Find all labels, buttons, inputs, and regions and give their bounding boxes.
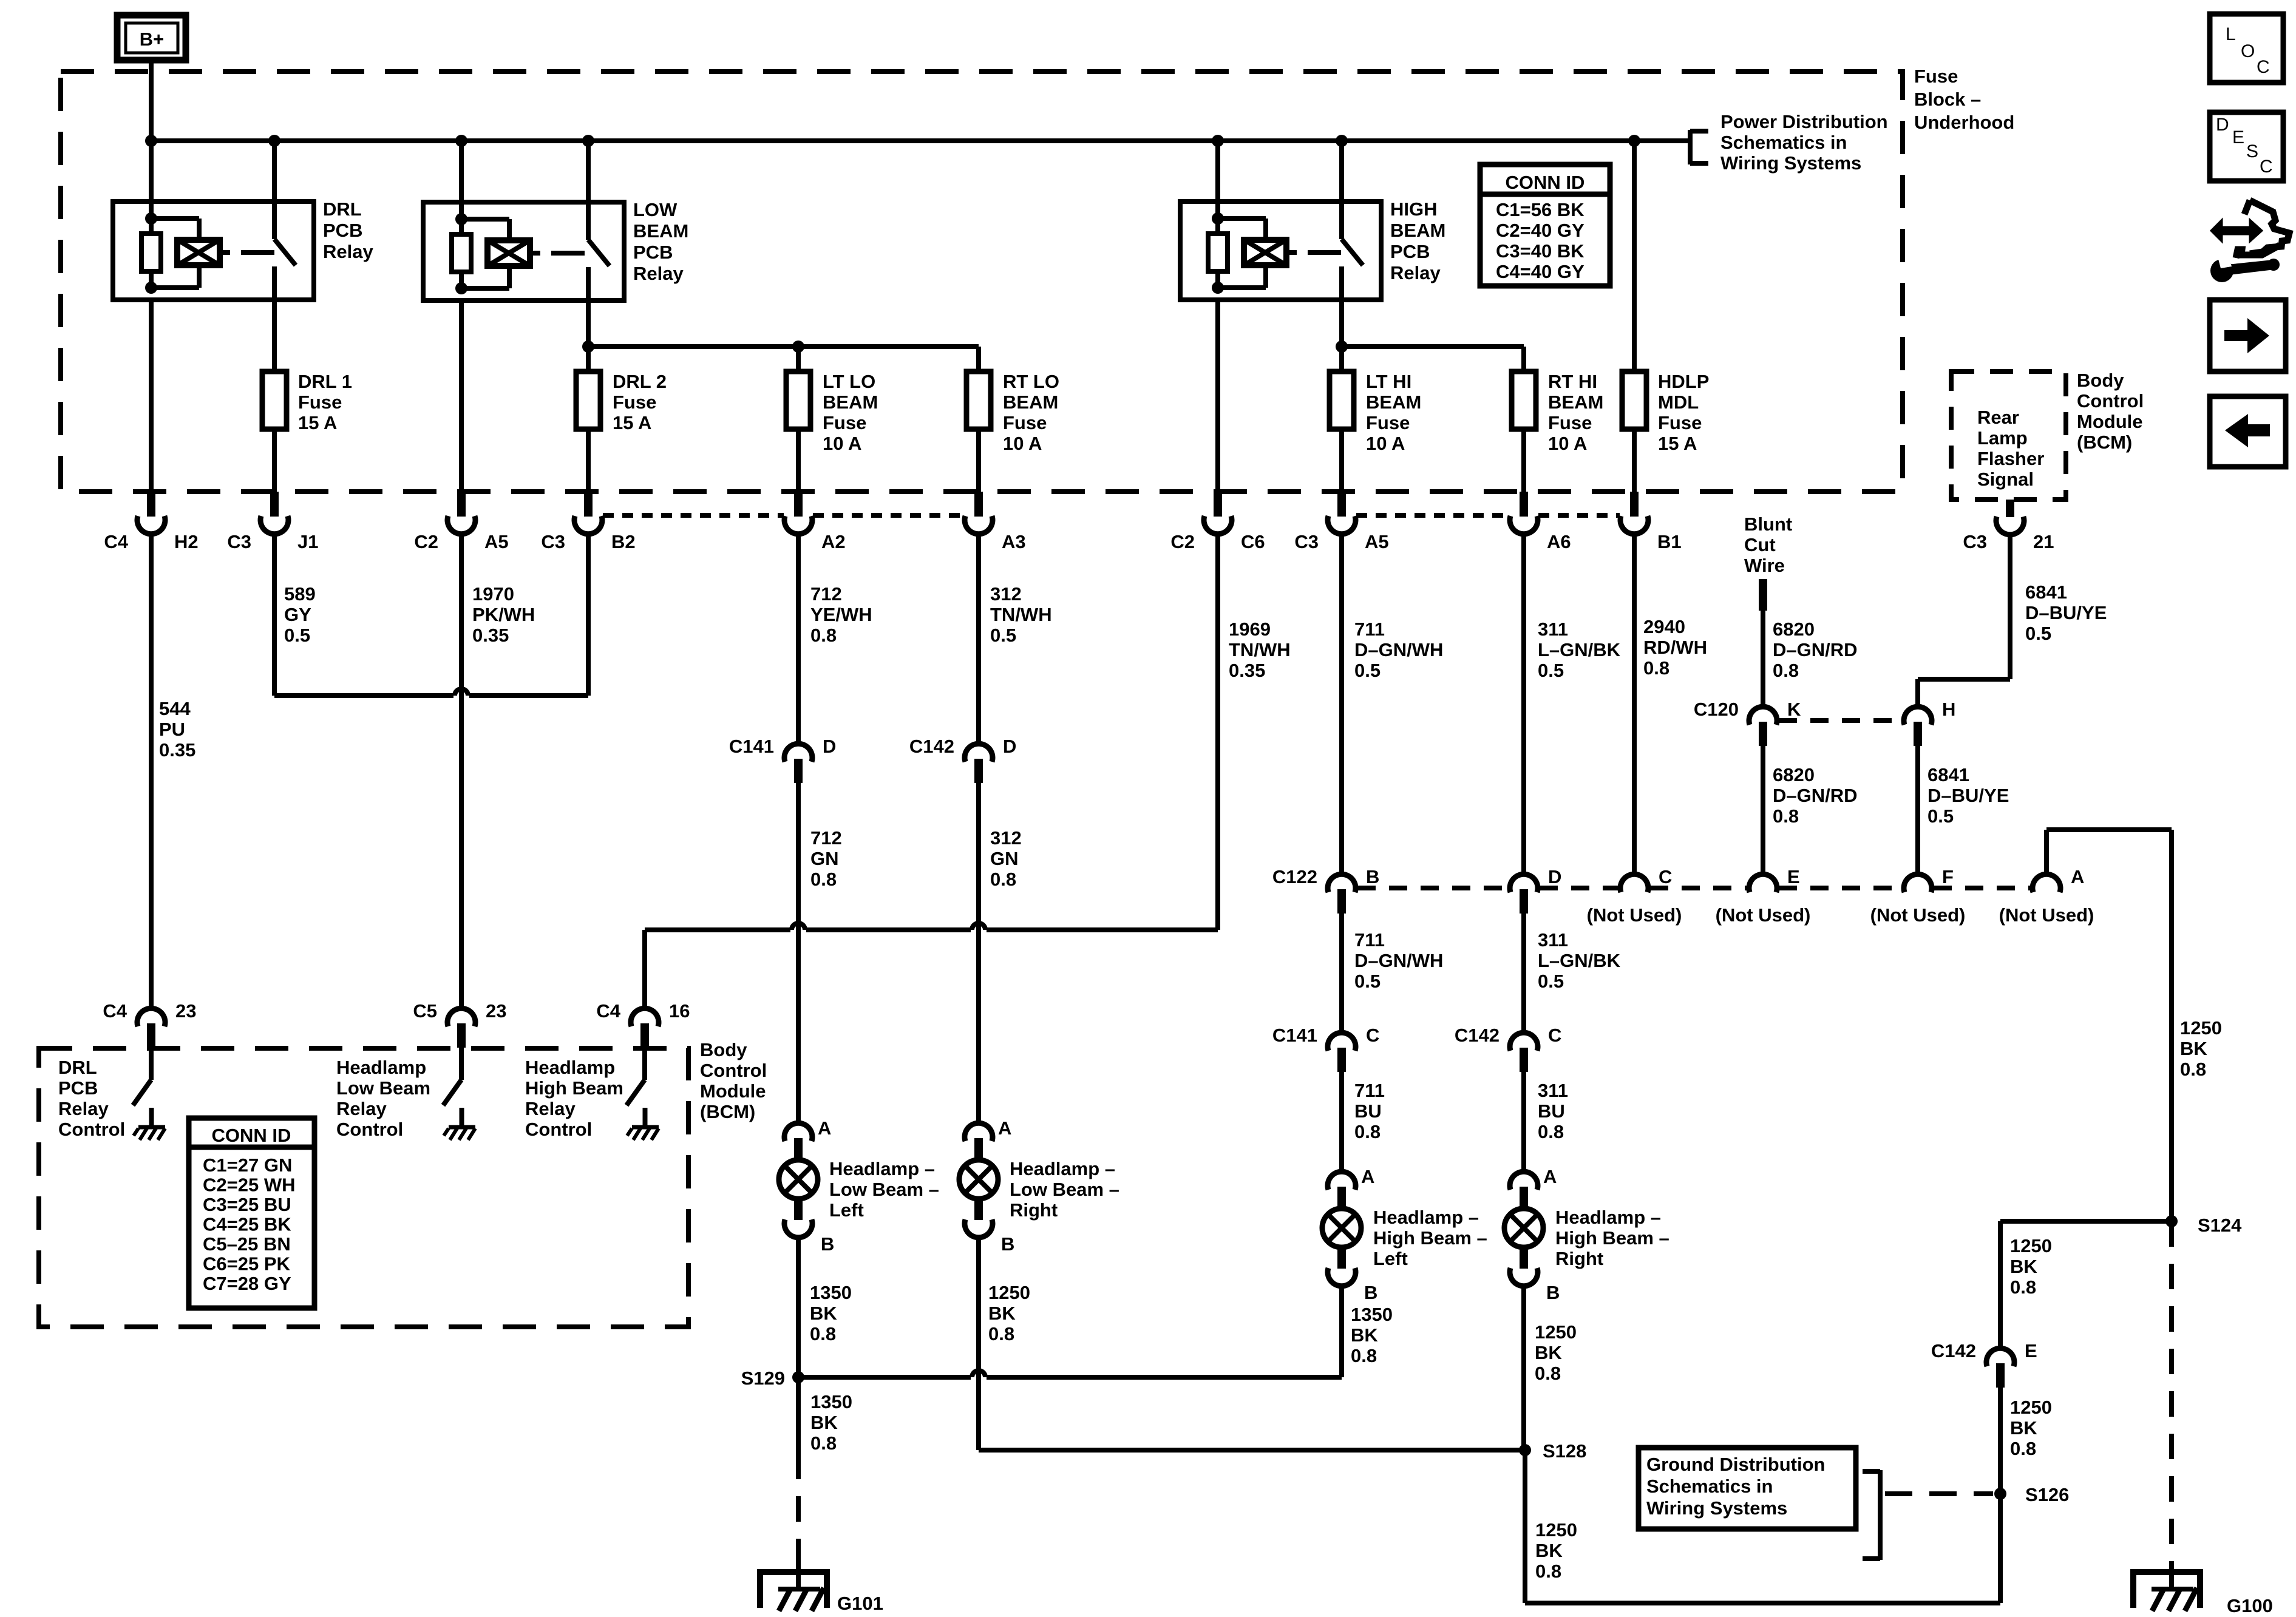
wire DRL2 fuse to B2 [586,429,591,493]
svg-text:311: 311 [1538,929,1568,951]
connector C4 pin H2 [147,492,155,517]
ground G101 [760,1572,827,1608]
wire to S124 [2000,1219,2172,1224]
wire 1969 horizontal to BCM [987,927,1218,932]
svg-text:C4: C4 [103,1000,127,1022]
svg-text:1970: 1970 [472,583,514,605]
svg-text:Lamp: Lamp [1977,427,2028,449]
wire 1350 BK below S129 [796,1377,801,1454]
svg-text:1350: 1350 [810,1282,852,1303]
svg-text:A5: A5 [1365,531,1389,552]
icon DESC box [2210,112,2283,181]
wire HIGH BEAM switch to branch [1339,300,1344,347]
svg-text:Body: Body [700,1039,747,1060]
svg-text:BEAM: BEAM [823,392,878,413]
svg-text:Right: Right [1555,1248,1603,1269]
wire 1250 BK lamp right [976,1238,981,1450]
wire bus to LOW BEAM relay coil [459,141,464,202]
icon wiring repair double arrow [2211,220,2262,242]
svg-text:C: C [1366,1025,1379,1046]
svg-text:LT HI: LT HI [1366,371,1411,392]
svg-text:Fuse: Fuse [1658,412,1702,433]
svg-text:BK: BK [810,1412,838,1433]
fuse HDLP MDL 15A [1622,371,1646,429]
wire DRL1 fuse to J1 [272,429,277,493]
svg-text:BK: BK [1351,1324,1378,1346]
svg-text:Signal: Signal [1977,469,2034,490]
wire dashed to G101 [796,1454,801,1542]
svg-text:Control: Control [336,1119,403,1140]
svg-text:DRL: DRL [323,198,362,220]
svg-text:Control: Control [525,1119,592,1140]
wire 311 L-GN/BK upper [1521,534,1526,876]
wire B+ to bus [149,60,154,141]
svg-text:C3=40 BK: C3=40 BK [1496,240,1584,262]
svg-text:D–BU/YE: D–BU/YE [1927,785,2009,806]
power distribution reference bracket [1688,130,1693,164]
dashed link bracket to S126 [1885,1491,1993,1496]
wire 712 GN [796,783,801,1125]
svg-text:D–BU/YE: D–BU/YE [2025,602,2107,623]
svg-text:PU: PU [159,719,185,740]
connector shell dotted line left [603,513,784,518]
wire bus to HIGH BEAM relay coil [1215,141,1220,202]
svg-text:C2: C2 [1170,531,1195,552]
svg-text:0.35: 0.35 [472,625,509,646]
connector pin B1 [1630,492,1639,517]
wire S128 down [1523,1450,1527,1603]
svg-text:BU: BU [1538,1100,1565,1122]
svg-text:RT LO: RT LO [1003,371,1059,392]
branch node high beam [1336,341,1348,353]
icon wiring repair wrench [2210,259,2233,282]
svg-text:C142: C142 [909,736,954,757]
CONN ID table fuse block [1480,164,1610,286]
svg-text:A: A [818,1117,831,1139]
BCM dashed box bottom left [39,1048,688,1327]
svg-text:A5: A5 [484,531,509,552]
svg-text:HIGH: HIGH [1390,198,1438,220]
svg-text:312: 312 [990,583,1022,605]
icon wiring repair outline [2250,200,2289,254]
svg-text:10 A: 10 A [823,433,861,454]
svg-text:BEAM: BEAM [1003,392,1058,413]
svg-text:S126: S126 [2025,1484,2069,1505]
svg-text:0.8: 0.8 [810,1432,837,1454]
svg-text:TN/WH: TN/WH [990,604,1052,625]
svg-text:Relay: Relay [323,241,373,262]
svg-text:HDLP: HDLP [1658,371,1709,392]
connector C122 pin A [2033,874,2060,892]
wire HIGH BEAM coil to C2 C6 [1215,300,1220,493]
svg-text:(Not Used): (Not Used) [1587,904,1682,926]
wire 544 PU [149,534,154,1010]
svg-text:D: D [1003,736,1016,757]
svg-text:711: 711 [1354,929,1385,951]
wire HDLP MDL fuse to B1 [1632,429,1637,493]
svg-text:BK: BK [988,1303,1016,1324]
svg-text:0.5: 0.5 [990,625,1016,646]
wire RT HI fuse to A6 [1521,429,1526,493]
svg-text:Cut: Cut [1744,534,1776,555]
svg-text:C7=28 GY: C7=28 GY [203,1273,291,1294]
wire into G101 [796,1542,801,1572]
svg-text:10 A: 10 A [1366,433,1405,454]
svg-text:712: 712 [810,583,842,605]
svg-text:1969: 1969 [1229,619,1271,640]
svg-text:0.8: 0.8 [1538,1121,1564,1142]
connector C122 pin C [1620,874,1648,892]
svg-text:10 A: 10 A [1003,433,1042,454]
wire 6820 to K [1761,611,1765,708]
svg-text:Schematics in: Schematics in [1646,1476,1773,1497]
svg-text:Headlamp –: Headlamp – [1555,1207,1661,1228]
svg-text:Wire: Wire [1744,555,1785,576]
svg-text:Module: Module [2077,411,2143,432]
svg-text:J1: J1 [297,531,318,552]
connector C2 pin C6 [1214,492,1222,517]
splice S129 [792,1371,804,1383]
svg-text:S128: S128 [1543,1440,1586,1462]
svg-text:0.8: 0.8 [2010,1276,2036,1298]
svg-text:GN: GN [990,848,1019,869]
wire 711 D-GN/WH upper [1339,534,1344,876]
wire 1969 down to C4 16 [642,930,647,1010]
svg-text:0.8: 0.8 [2010,1438,2036,1459]
svg-text:Fuse: Fuse [1548,412,1592,433]
svg-text:16: 16 [669,1000,690,1022]
svg-text:BK: BK [2010,1256,2037,1277]
svg-text:CONN ID: CONN ID [212,1125,291,1146]
svg-text:10 A: 10 A [1548,433,1587,454]
svg-text:G101: G101 [837,1593,883,1614]
svg-text:A: A [1361,1166,1374,1187]
connector C141 pin D [784,744,812,762]
wire RT LO fuse to A3 [976,429,981,493]
wire 589 GY down [272,534,277,696]
wire branch to RT HI fuse [1521,347,1526,371]
svg-text:RD/WH: RD/WH [1643,637,1707,658]
svg-text:C: C [1548,1025,1561,1046]
blunt cut wire stub [1759,579,1767,611]
svg-text:Fuse: Fuse [298,392,342,413]
svg-text:15 A: 15 A [1658,433,1697,454]
svg-text:1350: 1350 [1351,1304,1393,1325]
wire low right to S128 [979,1448,1525,1453]
svg-text:F: F [1942,866,1954,887]
relay K3 HIGH BEAM PCB Relay [1180,202,1381,300]
svg-text:GY: GY [284,604,311,625]
wire LOW BEAM coil to C2 A5 [459,300,464,493]
connector C3 pin 21 [2006,500,2014,517]
svg-text:0.5: 0.5 [1927,805,1954,827]
svg-text:Relay: Relay [336,1098,387,1119]
svg-text:0.5: 0.5 [2025,623,2051,644]
wire 1350 BK lamp left [796,1238,801,1377]
svg-text:D–GN/RD: D–GN/RD [1773,785,1858,806]
lamp headlamp low beam right [965,1123,993,1141]
svg-text:Relay: Relay [58,1098,109,1119]
svg-text:L–GN/BK: L–GN/BK [1538,950,1621,971]
svg-text:H: H [1942,699,1955,720]
svg-text:Left: Left [1373,1248,1408,1269]
svg-text:C120: C120 [1694,699,1739,720]
svg-text:YE/WH: YE/WH [810,604,872,625]
svg-text:C4=25 BK: C4=25 BK [203,1214,291,1235]
svg-text:C6=25 PK: C6=25 PK [203,1253,291,1275]
svg-text:L–GN/BK: L–GN/BK [1538,639,1621,660]
svg-text:0.5: 0.5 [1538,660,1564,681]
switch headlamp high beam relay control [642,1048,647,1080]
svg-text:Relay: Relay [1390,262,1441,283]
connector C142 pin D [965,744,993,762]
svg-text:Right: Right [1010,1199,1058,1221]
svg-text:B: B [1546,1282,1560,1303]
fuse DRL1 15A [262,371,287,429]
wire 1970 B2 leg [586,534,591,696]
fuse LT HI BEAM 10A [1330,371,1354,429]
svg-text:C3=25 BU: C3=25 BU [203,1194,291,1215]
svg-text:B2: B2 [611,531,636,552]
svg-text:D–GN/WH: D–GN/WH [1354,639,1443,660]
relay K1 DRL PCB Relay [113,202,314,300]
svg-text:A2: A2 [821,531,846,552]
svg-text:Headlamp –: Headlamp – [1373,1207,1479,1228]
svg-text:B: B [821,1233,834,1255]
branch node low beam [582,341,594,353]
rear lamp flasher signal box [1951,371,2066,500]
svg-text:C4=40 GY: C4=40 GY [1496,261,1584,282]
svg-text:312: 312 [990,827,1022,849]
svg-text:DRL 2: DRL 2 [613,371,667,392]
svg-text:Headlamp: Headlamp [525,1057,615,1078]
svg-text:0.8: 0.8 [810,869,837,890]
switch headlamp low beam relay control [459,1048,464,1080]
svg-text:Flasher: Flasher [1977,448,2044,469]
fuse block underhood dashed box [61,72,1903,492]
svg-text:C3: C3 [1963,531,1987,552]
svg-text:711: 711 [1354,619,1385,640]
svg-text:BK: BK [810,1303,837,1324]
svg-text:Low Beam: Low Beam [336,1077,430,1099]
svg-text:6820: 6820 [1773,619,1815,640]
svg-text:BEAM: BEAM [1548,392,1603,413]
svg-text:BK: BK [2180,1038,2207,1059]
svg-text:C1=27 GN: C1=27 GN [203,1154,292,1176]
wire 1970 PK/WH [459,534,464,1010]
wire 311 BU [1521,1072,1526,1173]
svg-text:0.5: 0.5 [1538,971,1564,992]
svg-text:High Beam –: High Beam – [1555,1227,1669,1249]
svg-text:C2=25 WH: C2=25 WH [203,1175,295,1196]
svg-text:0.8: 0.8 [2180,1059,2206,1080]
wire 311 L-GN/BK lower [1521,914,1526,1034]
svg-text:6820: 6820 [1773,764,1815,785]
svg-text:C5–25 BN: C5–25 BN [203,1233,291,1255]
svg-text:Left: Left [829,1199,864,1221]
svg-text:1350: 1350 [810,1391,852,1412]
wire 6841 down to H [1915,679,1920,708]
svg-text:Wiring Systems: Wiring Systems [1720,152,1861,174]
svg-text:0.8: 0.8 [1351,1345,1377,1366]
wire 6841 H to F [1915,746,1920,876]
svg-text:C3: C3 [227,531,251,552]
svg-text:1250: 1250 [2010,1397,2052,1418]
svg-text:(Not Used): (Not Used) [1716,904,1811,926]
svg-text:589: 589 [284,583,316,605]
svg-text:Fuse: Fuse [1914,66,1958,87]
connector C3 pin J1 [270,492,279,517]
svg-text:C: C [1659,866,1672,887]
svg-text:O: O [2241,41,2255,61]
svg-text:A: A [998,1117,1011,1139]
svg-text:LT LO: LT LO [823,371,875,392]
connector pin A6 [1520,492,1528,517]
svg-text:CONN ID: CONN ID [1506,172,1585,193]
connector C4 pin 16 [631,1008,659,1026]
svg-text:Block –: Block – [1914,89,1981,110]
svg-text:C1=56 BK: C1=56 BK [1496,199,1584,220]
svg-text:C6: C6 [1241,531,1265,552]
fuse LT LO BEAM 10A [786,371,810,429]
svg-text:DRL: DRL [58,1057,97,1078]
svg-text:E: E [1787,866,1800,887]
svg-text:0.8: 0.8 [810,1323,836,1344]
svg-text:B+: B+ [140,29,165,50]
svg-text:311: 311 [1538,619,1568,640]
svg-text:(BCM): (BCM) [2077,432,2132,453]
svg-text:Fuse: Fuse [613,392,656,413]
svg-text:Headlamp: Headlamp [336,1057,426,1078]
svg-text:Fuse: Fuse [1003,412,1047,433]
wire 712 YE/WH [796,534,801,745]
svg-text:Fuse: Fuse [823,412,866,433]
svg-text:0.5: 0.5 [1354,971,1381,992]
bus B+ feed [151,138,1690,143]
svg-text:MDL: MDL [1658,392,1699,413]
svg-text:D: D [823,736,836,757]
wire 711 D-GN/WH lower [1339,914,1344,1034]
svg-text:D: D [2216,115,2229,135]
wire bus to HDLP MDL fuse [1632,141,1637,371]
svg-text:A6: A6 [1547,531,1571,552]
lamp headlamp low beam left [784,1123,812,1141]
icon forward arrow box [2210,300,2286,371]
connector C122 pin F [1904,874,1932,892]
svg-text:1250: 1250 [1535,1321,1577,1343]
svg-text:712: 712 [810,827,842,849]
connector shell dotted line right [1356,513,1509,518]
svg-text:Control: Control [700,1060,767,1081]
svg-text:BEAM: BEAM [1366,392,1421,413]
svg-text:BK: BK [2010,1417,2037,1439]
svg-text:PCB: PCB [58,1077,98,1099]
svg-text:0.8: 0.8 [988,1323,1014,1344]
wire hop at low right crossing [972,1371,985,1377]
svg-text:C2: C2 [414,531,438,552]
wire hop at A2 crossing [792,923,805,930]
connector C122 pin D [1510,874,1538,892]
wire 6820 K to E [1761,746,1765,876]
wire bus to LOW BEAM relay switch [586,141,591,202]
svg-text:1250: 1250 [988,1282,1030,1303]
svg-text:2940: 2940 [1643,616,1685,637]
svg-text:PCB: PCB [1390,241,1430,262]
svg-text:BEAM: BEAM [633,220,688,242]
wire branch to DRL2 fuse [586,347,591,371]
svg-text:BU: BU [1354,1100,1382,1122]
wire LT LO fuse to A2 [796,429,801,493]
svg-text:PCB: PCB [323,220,362,241]
svg-text:Relay: Relay [633,263,684,284]
svg-text:15 A: 15 A [298,412,337,433]
svg-text:0.5: 0.5 [284,625,310,646]
svg-text:Schematics in: Schematics in [1720,132,1847,153]
svg-text:15 A: 15 A [613,412,651,433]
CONN ID table BCM [189,1118,314,1308]
svg-text:High Beam: High Beam [525,1077,623,1099]
svg-text:S: S [2246,141,2258,161]
svg-text:D–GN/WH: D–GN/WH [1354,950,1443,971]
connector C120 pin H [1904,707,1932,725]
svg-text:0.35: 0.35 [1229,660,1265,681]
svg-text:Power Distribution: Power Distribution [1720,111,1888,132]
ground G100 [2133,1572,2200,1608]
svg-text:0.8: 0.8 [1643,657,1669,679]
icon back arrow box [2210,396,2286,467]
fuse RT LO BEAM 10A [966,371,991,429]
splice S124 [2165,1215,2178,1227]
svg-text:1250: 1250 [1535,1519,1577,1541]
svg-text:0.8: 0.8 [1773,805,1799,827]
svg-text:C: C [2257,57,2270,77]
svg-text:(Not Used): (Not Used) [1870,904,1966,926]
lamp headlamp high beam right [1510,1171,1538,1190]
svg-text:B: B [1001,1233,1014,1255]
wire branch to LT HI fuse [1339,347,1344,371]
connector C3 pin B2 [584,492,593,517]
wire C142 E up [1998,1221,2003,1350]
svg-text:Headlamp –: Headlamp – [1010,1158,1115,1179]
svg-text:(Not Used): (Not Used) [1999,904,2094,926]
wire 1350 BK high beam left [1339,1286,1344,1377]
connector C120 dashed shell line [1779,718,1902,723]
wire dashed S124 to G100 [2169,1221,2174,1572]
svg-text:DRL 1: DRL 1 [298,371,352,392]
svg-text:C141: C141 [1272,1025,1317,1046]
svg-text:D–GN/RD: D–GN/RD [1773,639,1858,660]
svg-text:D: D [1548,866,1561,887]
svg-text:Ground Distribution: Ground Distribution [1646,1454,1825,1475]
svg-text:C: C [2260,157,2273,177]
svg-text:S129: S129 [741,1368,785,1389]
wire S128 to S126 riser [1525,1601,2000,1605]
connector C3 pin A5 high [1337,492,1346,517]
svg-text:Low Beam –: Low Beam – [1010,1179,1119,1200]
svg-text:Blunt: Blunt [1744,514,1792,535]
svg-text:Module: Module [700,1080,766,1102]
connector C5 pin 23 [447,1008,475,1026]
wire low beam feed branch [588,344,979,349]
splice S128 [1519,1444,1531,1456]
svg-text:0.8: 0.8 [810,625,837,646]
svg-text:C3: C3 [541,531,565,552]
svg-text:C142: C142 [1455,1025,1500,1046]
wire bus to DRL relay switch [272,141,277,202]
connector C141 pin C [1328,1032,1356,1051]
svg-text:0.8: 0.8 [1773,660,1799,681]
svg-text:L: L [2226,24,2236,44]
